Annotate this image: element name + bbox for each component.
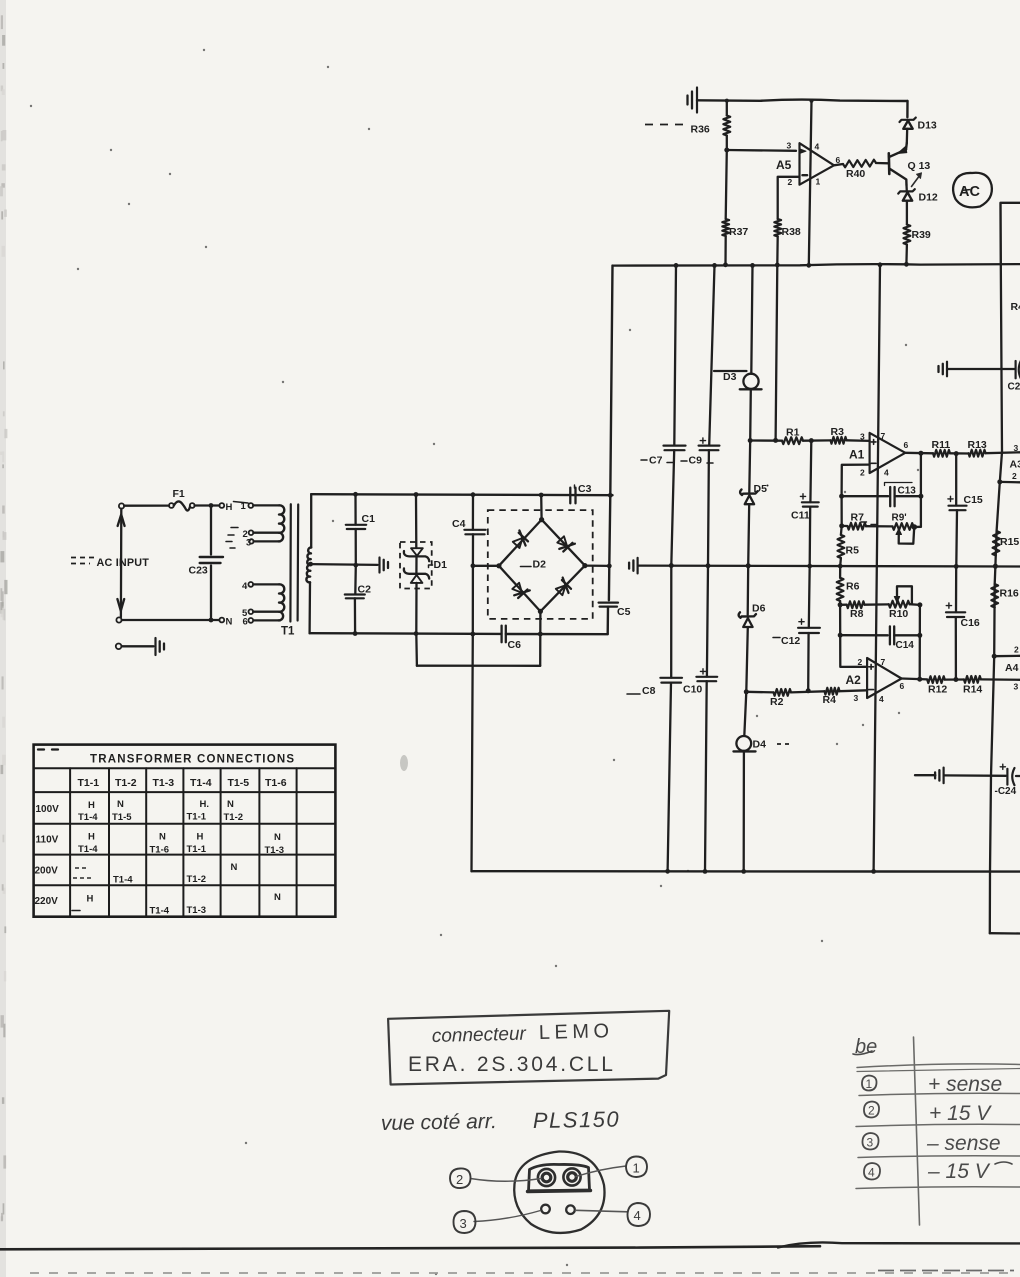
svg-text:H.: H. <box>200 799 210 810</box>
leader line pin4 <box>576 1210 628 1212</box>
svg-text:N: N <box>159 832 166 843</box>
svg-text:vue coté arr.: vue coté arr. <box>381 1110 497 1135</box>
annotation arrow at Q13 emitter <box>912 175 921 187</box>
svg-text:T1-3: T1-3 <box>265 845 285 856</box>
resistor R16 <box>991 584 998 608</box>
op-amp A1 <box>870 433 906 473</box>
bridge diode top-right <box>557 536 567 546</box>
wire node down to R37 <box>726 150 727 219</box>
node C16 bottom <box>953 677 958 682</box>
A2 plus sign <box>869 666 874 668</box>
capacitor C24 row ground <box>915 774 935 776</box>
wire R4 to A2 - input <box>840 689 868 692</box>
diode D12 (zener) <box>898 189 915 193</box>
wire lower loop from D1 line <box>415 634 418 666</box>
resistor R38 <box>774 219 781 236</box>
wire branch bus to R1 node <box>776 265 778 441</box>
A1 minus sign <box>871 462 876 464</box>
ground (secondary center tap) <box>378 558 380 573</box>
wire feedback right vertical <box>920 453 922 496</box>
svg-text:7: 7 <box>881 431 886 441</box>
svg-text:N: N <box>117 799 124 810</box>
svg-text:1: 1 <box>241 501 247 512</box>
wire to chassis ground <box>122 645 154 647</box>
wire lower rail <box>472 870 1020 873</box>
svg-text:2: 2 <box>1012 471 1017 481</box>
wire A2 + input <box>840 635 867 667</box>
svg-text:5: 5 <box>242 608 248 619</box>
wire D12 to R39 <box>906 201 908 225</box>
svg-text:D2: D2 <box>533 559 547 571</box>
junction C4/bridge left <box>471 563 476 568</box>
svg-text:C5: C5 <box>617 606 631 618</box>
svg-text:R4: R4 <box>823 694 837 706</box>
svg-text:N: N <box>227 799 234 810</box>
wire fuse to H terminal <box>195 504 220 506</box>
bridge diode bottom-right <box>556 585 566 595</box>
svg-text:3: 3 <box>1014 682 1019 692</box>
bridge rectifier D2 diamond <box>499 520 585 612</box>
node A4 stub <box>992 654 997 659</box>
node A1 output <box>918 451 923 456</box>
connector pin 1 (large) <box>563 1168 580 1185</box>
svg-text:C2: C2 <box>358 584 372 596</box>
svg-text:200V: 200V <box>35 866 59 877</box>
bridge diode bottom-left <box>512 583 522 593</box>
svg-text:R2: R2 <box>770 696 784 708</box>
node A2 output <box>917 677 922 682</box>
wire R8 to R10 <box>865 603 889 606</box>
svg-text:1: 1 <box>866 1077 873 1091</box>
svg-text:C9: C9 <box>689 455 703 467</box>
resistor R1 <box>782 437 803 444</box>
svg-text:– sense: – sense <box>926 1132 1001 1155</box>
svg-text:2: 2 <box>860 468 865 478</box>
wire bridge top corner to bus <box>540 495 543 520</box>
circled 2 row <box>864 1102 879 1118</box>
wire secondary top bus <box>311 494 612 495</box>
svg-text:110V: 110V <box>36 835 59 846</box>
node A1 feedback top <box>839 494 844 499</box>
wire bridge left corner <box>473 565 499 567</box>
svg-text:ERA. 2S.304.CLL: ERA. 2S.304.CLL <box>408 1053 616 1076</box>
capacitor C21 (clipped at edge) <box>1014 361 1016 378</box>
svg-text:T1-1: T1-1 <box>78 777 100 789</box>
capacitor C14 (series) <box>889 626 891 644</box>
wire R40 to Q13 base <box>876 162 889 165</box>
terminal circle AC input top <box>119 503 124 508</box>
smudge near table (decorative) <box>400 755 408 771</box>
svg-text:R13: R13 <box>968 439 987 451</box>
wire C14 to right vertical <box>894 634 920 636</box>
svg-text:R9': R9' <box>892 513 907 524</box>
circled 3 row <box>862 1133 878 1150</box>
svg-text:D4: D4 <box>753 739 767 751</box>
svg-text:R11: R11 <box>932 439 951 451</box>
node C15 top <box>954 451 959 456</box>
leader line pin2 <box>471 1179 542 1182</box>
A1 inverting input wire <box>842 465 870 497</box>
svg-text:R16: R16 <box>1000 588 1019 600</box>
svg-text:T1-2: T1-2 <box>224 812 244 823</box>
svg-text:C1: C1 <box>362 513 376 525</box>
resistor R3 <box>831 437 847 444</box>
node R10 right <box>917 602 922 607</box>
svg-text:R1: R1 <box>786 427 800 439</box>
svg-text:C15: C15 <box>964 494 983 506</box>
svg-text:R12: R12 <box>928 684 947 696</box>
svg-text:220V: 220V <box>35 896 59 907</box>
svg-text:C6: C6 <box>508 639 522 651</box>
A5 minus sign <box>802 174 807 176</box>
node A3 inverting stub <box>997 479 1002 484</box>
wire R1 to C11 node <box>803 439 831 442</box>
wire C21 row <box>947 368 1015 370</box>
circled 3 label <box>454 1211 476 1233</box>
wire mid line C1/C2 to ground <box>353 563 358 568</box>
ground (mid rail) <box>628 563 630 569</box>
connector body circle <box>514 1151 604 1232</box>
transformer pin6 terminal circle <box>248 618 253 623</box>
svg-text:3: 3 <box>787 141 792 151</box>
capacitor C2 <box>354 565 357 594</box>
svg-text:C12: C12 <box>781 635 800 647</box>
node C11 <box>809 438 814 443</box>
resistor R40 <box>843 160 876 168</box>
wire bottom return bus <box>310 632 502 635</box>
A5 inverting input wire to R38 <box>778 177 800 219</box>
wire ground rail to R36 <box>726 101 728 116</box>
wire A5 supply vertical <box>809 101 812 265</box>
annotation circled AC <box>953 173 992 208</box>
svg-text:D3: D3 <box>723 371 737 383</box>
wire C13 row <box>842 495 889 497</box>
wire D3 to node R1 <box>749 389 752 440</box>
wire R3 to A1 + input <box>847 439 870 442</box>
bridge diode top-left <box>513 538 523 548</box>
svg-text:T1-5: T1-5 <box>228 777 250 789</box>
svg-text:N: N <box>274 892 281 903</box>
wire R36 to node <box>726 136 728 151</box>
resistor R8 <box>840 604 847 606</box>
svg-text:F1: F1 <box>173 488 185 500</box>
wire stub exiting right at top right <box>1001 203 1020 265</box>
capacitor C11 <box>809 441 812 503</box>
wire top rail corner down to D13 <box>906 101 908 117</box>
svg-text:C7: C7 <box>649 455 663 467</box>
svg-text:2: 2 <box>1014 645 1019 655</box>
svg-text:Q 13: Q 13 <box>908 160 931 172</box>
node R8 left <box>838 602 843 607</box>
connector key insert rectangle <box>529 1164 590 1190</box>
svg-text:1: 1 <box>633 1161 640 1176</box>
svg-text:2: 2 <box>788 177 793 187</box>
zener D6 <box>747 566 750 615</box>
wire R2 to R4 <box>791 691 825 692</box>
ground (AC input) <box>154 638 156 655</box>
capacitor C24 <box>1006 769 1008 785</box>
terminal circle AC input bottom <box>116 617 121 622</box>
terminal circle chassis ground <box>116 644 122 650</box>
svg-text:– 15 V: – 15 V <box>927 1160 991 1183</box>
op-amp A5 <box>800 143 835 185</box>
wire R38 to bus <box>776 236 779 265</box>
svg-text:T1-5: T1-5 <box>112 812 132 823</box>
svg-text:R39: R39 <box>912 229 931 241</box>
svg-text:6: 6 <box>904 440 909 450</box>
svg-text:7: 7 <box>881 657 886 667</box>
svg-text:N: N <box>274 832 281 843</box>
R9 wiper loop <box>899 528 915 544</box>
svg-text:TRANSFORMER CONNECTIONS: TRANSFORMER CONNECTIONS <box>90 754 295 766</box>
wire A2 output <box>902 677 928 680</box>
resistor R5 <box>840 526 843 535</box>
wire bridge right corner <box>585 564 609 567</box>
dashed leader left of R36 <box>645 124 684 126</box>
svg-text:R4: R4 <box>1011 301 1020 313</box>
svg-text:R40: R40 <box>846 168 865 180</box>
wire D6 to node R2 <box>746 627 748 692</box>
wire Q13 emitter to D12 <box>905 185 908 191</box>
resistor R37 <box>722 219 729 236</box>
wire R2 row <box>746 691 773 694</box>
dashed marks left of AC INPUT <box>71 557 94 559</box>
transistor Q13 <box>887 153 890 174</box>
wire R7 to R9 <box>866 525 893 528</box>
resistor R4 <box>825 688 840 695</box>
T1 core lines <box>289 504 292 621</box>
svg-text:4: 4 <box>815 142 820 152</box>
resistor R12 <box>927 676 945 683</box>
circled 4 row <box>864 1163 880 1180</box>
capacitor C1 <box>354 494 356 524</box>
dash marks left of pins 2,3 <box>231 527 238 529</box>
svg-text:T1-3: T1-3 <box>153 777 175 789</box>
circled 1 label <box>626 1157 647 1178</box>
bridge D2 dashed box <box>488 510 593 619</box>
svg-text:A4: A4 <box>1005 662 1019 674</box>
svg-text:D5: D5 <box>754 483 768 495</box>
T1 primary winding upper <box>253 504 279 506</box>
svg-text:C8: C8 <box>642 685 656 697</box>
svg-text:3: 3 <box>854 693 859 703</box>
capacitor C16 <box>955 566 958 612</box>
svg-text:LEMO: LEMO <box>539 1020 614 1044</box>
svg-text:4: 4 <box>868 1166 875 1180</box>
zener D5 <box>748 441 751 493</box>
wire C14 row <box>839 605 841 635</box>
capacitor C7 <box>664 445 686 447</box>
wire D3 branch from bus <box>751 265 752 373</box>
A2 minus sign <box>869 689 874 691</box>
svg-text:R8: R8 <box>850 608 864 620</box>
svg-text:C4: C4 <box>452 518 466 530</box>
wire D4 to lower rail <box>743 751 746 871</box>
svg-text:A1: A1 <box>849 448 865 462</box>
svg-text:100V: 100V <box>36 804 60 815</box>
svg-text:H: H <box>197 832 204 843</box>
svg-text:4: 4 <box>242 581 248 592</box>
svg-text:D12: D12 <box>919 192 938 204</box>
terminal circle H <box>219 503 224 508</box>
wire A4 stub to edge <box>994 655 1020 658</box>
resistor R6 <box>837 578 844 601</box>
wire C7 branch <box>674 265 676 445</box>
resistor R14 <box>964 676 981 683</box>
svg-text:4: 4 <box>879 694 884 704</box>
capacitor C5 (series in right edge) <box>599 601 618 603</box>
diode D3 (circle style) <box>743 374 758 389</box>
wire right main vertical <box>990 265 1002 934</box>
svg-text:A3: A3 <box>1010 459 1020 471</box>
svg-text:C23: C23 <box>189 565 208 577</box>
leader line pin3 <box>474 1211 541 1222</box>
capacitor C6 (series in bottom bus) <box>500 626 502 643</box>
svg-text:T1-1: T1-1 <box>187 844 207 855</box>
op-amp A2 <box>867 658 901 698</box>
svg-text:1: 1 <box>816 177 821 187</box>
resistor R11 <box>933 450 950 457</box>
wire A3 inverting stub to edge <box>1000 481 1020 484</box>
wire main bus <box>613 264 1020 266</box>
transformer connections table <box>34 745 336 917</box>
wire C4 branch down to lower rail <box>472 634 473 871</box>
svg-text:C3: C3 <box>578 483 592 495</box>
capacitor C13 (series) <box>889 487 891 506</box>
wire node to A5 + input <box>727 149 796 152</box>
wire A2 feedback vertical <box>919 605 922 679</box>
capacitor C21 row ground <box>937 366 939 372</box>
wire R6 to R8 node <box>839 601 841 605</box>
wire top rail from ground to D13 branch <box>697 100 908 101</box>
AC input vertical with arrows <box>120 509 123 617</box>
svg-text:+ sense: + sense <box>928 1073 1002 1096</box>
table cells 200V row <box>75 867 88 869</box>
wire R14 to edge (A4 input) <box>981 678 1020 681</box>
svg-text:A2: A2 <box>846 673 862 687</box>
resistor R15 <box>992 531 1000 556</box>
resistor R10 (trimmer) <box>889 601 910 608</box>
svg-text:D1: D1 <box>434 559 448 571</box>
svg-text:T1-4: T1-4 <box>78 812 98 823</box>
capacitor C23 <box>210 508 212 555</box>
svg-text:C10: C10 <box>683 684 702 696</box>
svg-text:H: H <box>226 502 233 513</box>
node D3/R1 <box>748 438 753 443</box>
svg-text:R3: R3 <box>831 426 845 438</box>
node C14 left <box>838 633 843 638</box>
svg-text:AC: AC <box>959 184 980 200</box>
svg-text:H: H <box>88 800 95 811</box>
wire bottom-right exit <box>990 932 1020 935</box>
transformer pin1 terminal circle <box>248 503 253 508</box>
scan edge noise (decorative) <box>0 0 6 1277</box>
svg-text:R5: R5 <box>846 545 860 557</box>
svg-text:C16: C16 <box>961 617 980 629</box>
wire R5 to ground rail <box>839 558 842 566</box>
svg-text:3: 3 <box>1014 443 1019 453</box>
svg-text:PLS150: PLS150 <box>533 1106 621 1133</box>
node D6/R2 <box>744 689 749 694</box>
wire D5 to ground rail <box>748 504 749 565</box>
svg-text:-C24: -C24 <box>995 786 1017 797</box>
wire mid ground rail <box>638 564 1020 567</box>
svg-text:C11: C11 <box>791 510 810 522</box>
svg-text:connecteur: connecteur <box>432 1024 527 1047</box>
svg-text:3: 3 <box>867 1136 874 1150</box>
resistor R2 <box>774 689 792 696</box>
leader line pin1 <box>576 1166 626 1177</box>
wire top AC line to fuse <box>124 504 169 506</box>
A1 plus sign <box>871 441 876 443</box>
svg-text:AC INPUT: AC INPUT <box>97 557 150 569</box>
svg-text:T1-4: T1-4 <box>190 777 212 789</box>
bottom dashed line <box>30 1272 1010 1274</box>
svg-text:R37: R37 <box>729 226 748 238</box>
svg-text:T1-4: T1-4 <box>78 844 98 855</box>
circled 4 label <box>628 1203 651 1226</box>
svg-text:2: 2 <box>858 657 863 667</box>
svg-text:T1-6: T1-6 <box>265 777 287 789</box>
R10 wiper loop <box>897 586 912 604</box>
wire R12 to R14 <box>945 678 964 680</box>
node feedback right top <box>918 494 923 499</box>
suppressor D1 <box>415 495 418 549</box>
wire R6 from ground rail <box>839 566 841 578</box>
svg-text:+ 15 V: + 15 V <box>929 1102 992 1125</box>
circled 1 row <box>862 1076 877 1091</box>
svg-text:T1-4: T1-4 <box>113 875 133 886</box>
wire C9 branch <box>709 265 714 445</box>
svg-text:R6: R6 <box>846 581 860 593</box>
capacitor C10 <box>707 566 708 677</box>
svg-text:T1-1: T1-1 <box>187 812 207 823</box>
connector pin 4 (small) <box>566 1205 575 1214</box>
bottom border line <box>0 1246 820 1249</box>
wire bottom AC line <box>122 619 220 621</box>
T1 primary winding lower <box>253 583 279 585</box>
capacitor C8 <box>670 565 672 677</box>
T1 secondary winding <box>310 494 312 547</box>
resistor R36 <box>723 116 730 136</box>
svg-text:R14: R14 <box>963 684 982 696</box>
wire R39 to bus <box>905 245 908 265</box>
svg-text:R15: R15 <box>1000 536 1019 548</box>
T1 secondary center tap <box>308 562 313 567</box>
diode D13 (zener) <box>900 118 916 122</box>
connector pin 3 (small) <box>541 1205 550 1214</box>
svg-text:T1-2: T1-2 <box>187 874 207 885</box>
wire R7 row <box>840 496 842 526</box>
capacitor C9 <box>699 445 720 447</box>
capacitor C15 <box>955 454 957 506</box>
resistor R9 (trimmer) <box>893 523 914 530</box>
node C12/R2 line <box>806 688 811 693</box>
wire A1 output <box>905 452 933 455</box>
diode D4 (circle style) <box>744 692 746 736</box>
terminal circle N <box>219 618 224 623</box>
handwritten note box connecteur LEMO <box>388 1011 669 1085</box>
wire H to transformer pin 1 <box>234 502 249 504</box>
svg-text:4: 4 <box>884 468 889 478</box>
svg-text:T1-3: T1-3 <box>187 905 207 916</box>
svg-text:R38: R38 <box>782 226 801 238</box>
wire R1 node to R1 <box>750 439 782 442</box>
suppressor D1 dashed box <box>400 542 432 589</box>
svg-text:T1-6: T1-6 <box>150 845 170 856</box>
capacitor C12 <box>808 565 811 627</box>
pin table vertical line <box>914 1037 920 1225</box>
